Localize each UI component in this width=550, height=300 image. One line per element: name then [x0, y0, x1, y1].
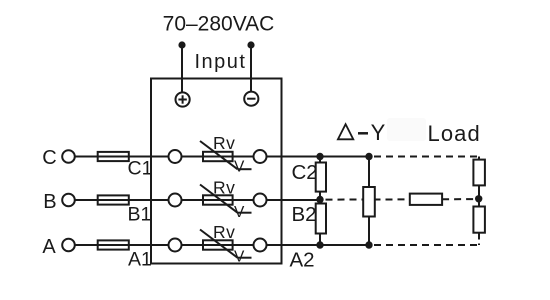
varistor Rv (row B) [200, 185, 252, 213]
svg-text:Y: Y [371, 120, 386, 145]
wire row C left [75, 156, 169, 158]
wire row A left [75, 244, 169, 246]
terminal box input B [169, 194, 182, 207]
node junction C x369 [365, 153, 372, 160]
terminal A [62, 239, 75, 252]
node input + dot [178, 41, 185, 48]
svg-text:C1: C1 [128, 157, 153, 179]
wire dashed row B middle [326, 198, 410, 200]
node input - dot [247, 41, 254, 48]
node junction A x320 [316, 241, 323, 248]
svg-text:V: V [234, 159, 245, 176]
svg-text:Rv: Rv [213, 133, 235, 153]
terminal - [244, 92, 258, 106]
label delta triangle [338, 124, 353, 139]
label dash of delta-Y [358, 132, 368, 135]
svg-text:70–280VAC: 70–280VAC [163, 13, 275, 36]
svg-text:Input: Input [195, 51, 247, 73]
resistor delta B-A [316, 204, 326, 234]
wire dashed row A right [374, 244, 479, 246]
node Y neutral dot [475, 195, 482, 202]
svg-text:V: V [234, 204, 245, 221]
terminal box output B [254, 194, 267, 207]
svg-text:A1: A1 [128, 249, 152, 271]
svg-text:C2: C2 [292, 161, 318, 184]
wire row A right [267, 244, 370, 246]
svg-text:C: C [42, 147, 56, 169]
wire row A inside box [182, 244, 254, 246]
svg-text:B1: B1 [128, 204, 152, 226]
wire row B right [267, 199, 321, 201]
wire input + lead [181, 45, 183, 93]
fuse B1 [98, 195, 129, 204]
wire delta bus x=320 [319, 157, 321, 246]
resistor Y phase C (vertical top) [473, 160, 485, 186]
wire row C inside box [182, 156, 254, 158]
varistor Rv (row C) [200, 141, 252, 169]
terminal box input C [169, 150, 182, 163]
resistor Y phase A (vertical bottom) [473, 207, 485, 233]
svg-text:B: B [43, 191, 56, 213]
terminal box output C [254, 150, 267, 163]
terminal + [176, 92, 190, 106]
node junction B x320 [316, 196, 323, 203]
SSR module box U1 [151, 79, 282, 264]
terminal B [62, 194, 75, 207]
varistor Rv (row A) [200, 230, 252, 258]
svg-text:B2: B2 [292, 203, 317, 226]
wire row C right [267, 156, 370, 158]
svg-text:Load: Load [428, 121, 481, 146]
resistor Y phase B (horizontal) [410, 194, 442, 205]
wire input - lead [250, 45, 252, 92]
svg-text:Rv: Rv [213, 178, 235, 198]
node junction A x369 [365, 241, 372, 248]
wire dashed row C right [374, 156, 479, 158]
resistor delta C-B [316, 163, 326, 192]
wire row B inside box [182, 199, 254, 201]
watermark ghost patch [387, 118, 426, 141]
svg-text:Rv: Rv [213, 222, 235, 242]
wire Y column solid [478, 157, 480, 233]
svg-text:A2: A2 [290, 249, 315, 272]
wire dashed B to Y center [442, 198, 474, 200]
terminal C [62, 150, 75, 163]
terminal box input A [169, 239, 182, 252]
wire delta bus x=369 [368, 157, 370, 246]
fuse A1 [98, 240, 129, 249]
wire row B left [75, 199, 169, 201]
wire Y column dashed bottom [478, 234, 480, 246]
terminal box output A [254, 239, 267, 252]
svg-text:V: V [234, 249, 245, 266]
fuse C1 [98, 152, 129, 161]
resistor delta C-A (middle) [363, 187, 375, 217]
node junction C x320 [316, 153, 323, 160]
svg-text:A: A [42, 236, 56, 258]
